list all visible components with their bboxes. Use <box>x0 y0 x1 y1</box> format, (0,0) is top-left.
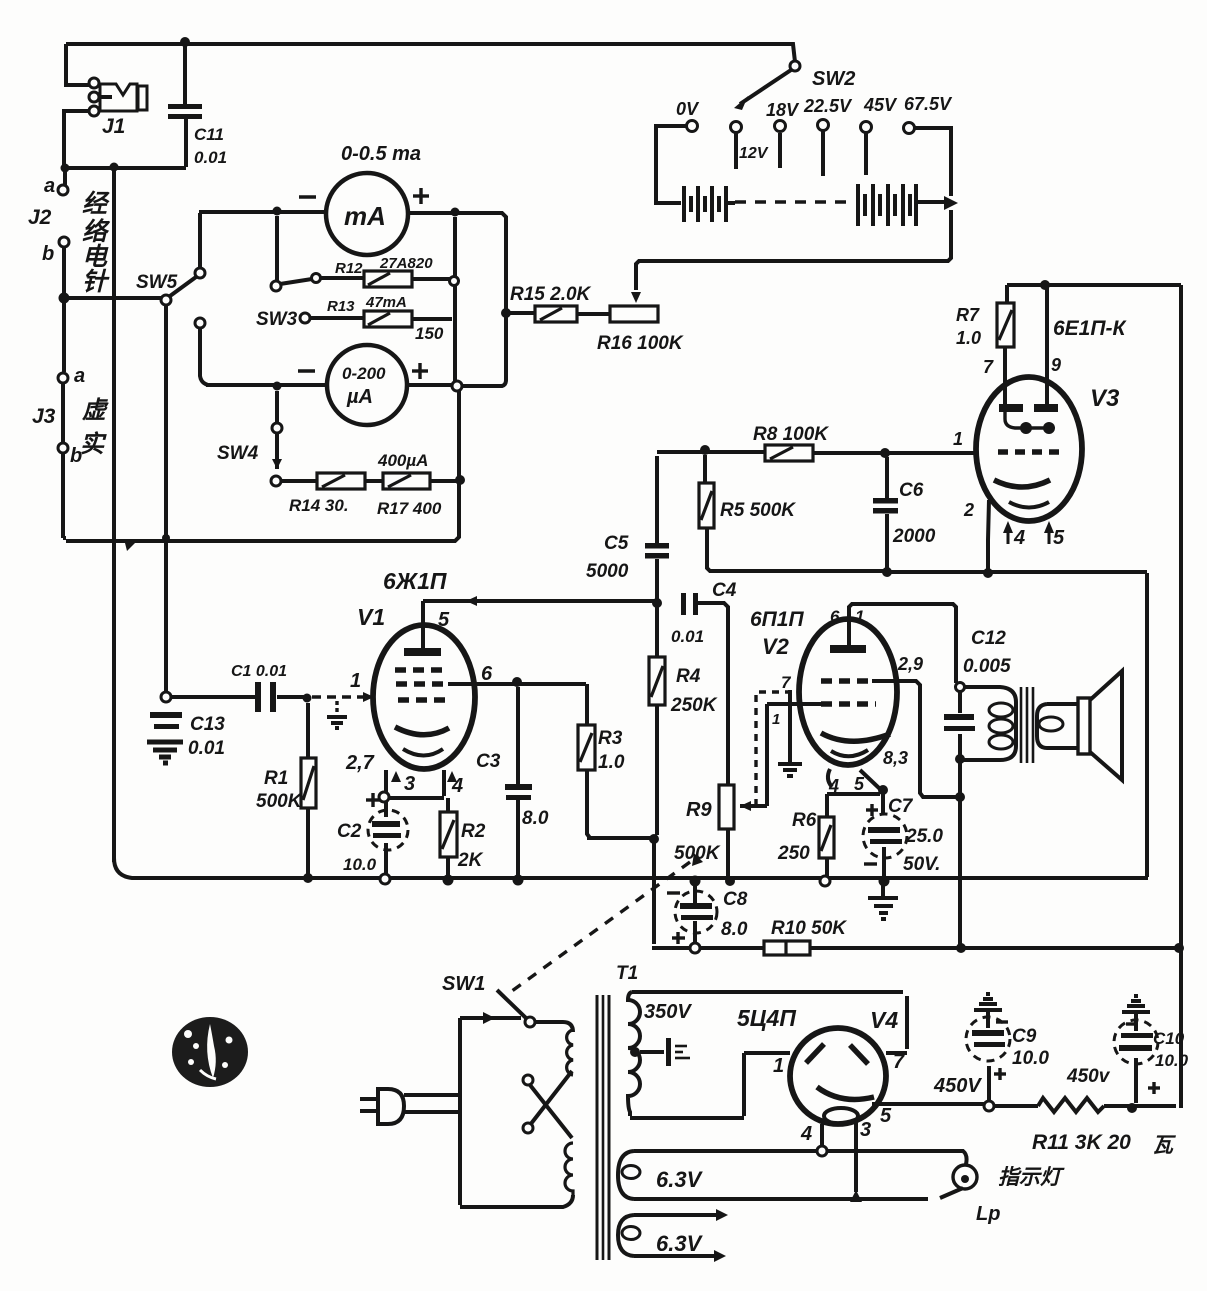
svg-text:J2: J2 <box>28 206 52 229</box>
svg-text:0.005: 0.005 <box>963 656 1011 677</box>
svg-text:C6: C6 <box>899 480 924 501</box>
svg-text:1: 1 <box>953 429 963 449</box>
svg-text:6Е1П-К: 6Е1П-К <box>1053 317 1127 340</box>
svg-text:0.01: 0.01 <box>194 148 227 167</box>
svg-text:R5 500K: R5 500K <box>720 500 796 521</box>
svg-text:R10 50K: R10 50K <box>771 918 847 939</box>
svg-text:R13: R13 <box>327 298 355 315</box>
svg-text:SW4: SW4 <box>217 443 259 464</box>
svg-text:R3: R3 <box>598 728 623 749</box>
svg-text:C9: C9 <box>1012 1026 1037 1047</box>
svg-text:V4: V4 <box>870 1007 898 1033</box>
svg-text:1.0: 1.0 <box>956 328 981 348</box>
svg-text:C12: C12 <box>971 628 1006 649</box>
svg-text:8,3: 8,3 <box>883 748 908 768</box>
svg-text:5: 5 <box>438 609 450 631</box>
svg-text:6.3V: 6.3V <box>656 1167 704 1192</box>
svg-text:3: 3 <box>404 773 415 795</box>
svg-text:µA: µA <box>346 386 373 408</box>
svg-text:R15 2.0K: R15 2.0K <box>510 284 592 305</box>
svg-text:4: 4 <box>828 776 839 796</box>
svg-text:2000: 2000 <box>892 526 936 547</box>
svg-text:虚: 虚 <box>82 397 109 424</box>
svg-text:6: 6 <box>830 607 840 626</box>
svg-text:实: 实 <box>80 431 107 458</box>
svg-text:J1: J1 <box>102 115 125 138</box>
svg-text:350V: 350V <box>644 1001 692 1023</box>
svg-text:SW1: SW1 <box>442 973 485 995</box>
svg-text:5: 5 <box>854 774 865 794</box>
svg-text:10.0: 10.0 <box>343 855 377 874</box>
svg-text:a: a <box>74 365 85 387</box>
svg-text:6.3V: 6.3V <box>656 1231 704 1256</box>
svg-text:V1: V1 <box>357 604 385 630</box>
svg-text:R7: R7 <box>956 305 980 325</box>
svg-text:500K: 500K <box>674 843 721 864</box>
svg-text:3: 3 <box>860 1119 871 1141</box>
svg-text:C4: C4 <box>712 580 737 601</box>
svg-text:C3: C3 <box>476 751 501 772</box>
svg-text:7: 7 <box>893 1051 905 1073</box>
svg-text:C7: C7 <box>888 796 914 817</box>
svg-text:C2: C2 <box>337 821 362 842</box>
svg-text:1: 1 <box>350 670 361 692</box>
svg-text:0-200: 0-200 <box>342 364 386 383</box>
svg-text:5: 5 <box>880 1105 892 1127</box>
svg-text:500K: 500K <box>256 791 303 812</box>
svg-text:0-0.5 ma: 0-0.5 ma <box>341 143 421 165</box>
svg-text:经: 经 <box>82 190 110 218</box>
svg-text:1: 1 <box>772 711 780 728</box>
svg-text:10.0: 10.0 <box>1155 1051 1189 1070</box>
svg-text:0.01: 0.01 <box>671 627 704 646</box>
svg-text:V3: V3 <box>1090 385 1120 412</box>
svg-text:SW5: SW5 <box>136 272 178 293</box>
svg-text:SW2: SW2 <box>812 68 855 90</box>
svg-text:7: 7 <box>983 357 994 377</box>
svg-text:J3: J3 <box>32 405 56 428</box>
svg-text:1.0: 1.0 <box>598 752 625 773</box>
svg-text:8.0: 8.0 <box>522 808 549 829</box>
svg-text:C10: C10 <box>1153 1029 1185 1048</box>
svg-text:针: 针 <box>82 268 110 296</box>
svg-text:8.0: 8.0 <box>721 919 748 940</box>
svg-text:R9: R9 <box>686 799 712 821</box>
svg-text:mA: mA <box>344 201 386 231</box>
svg-text:R4: R4 <box>676 666 701 687</box>
svg-text:250K: 250K <box>670 695 718 716</box>
svg-text:4: 4 <box>451 775 463 797</box>
svg-text:27A820: 27A820 <box>379 255 433 272</box>
svg-text:5000: 5000 <box>586 561 629 582</box>
svg-text:22.5V: 22.5V <box>803 96 853 116</box>
svg-text:450V: 450V <box>933 1075 982 1097</box>
svg-text:150: 150 <box>415 324 444 343</box>
svg-text:R2: R2 <box>461 821 486 842</box>
svg-text:0V: 0V <box>676 99 700 119</box>
svg-text:2,9: 2,9 <box>897 654 923 674</box>
svg-text:10.0: 10.0 <box>1012 1048 1049 1069</box>
svg-text:R1: R1 <box>264 768 288 789</box>
svg-text:0.01: 0.01 <box>188 738 225 759</box>
svg-text:18V: 18V <box>766 100 800 120</box>
svg-text:T1: T1 <box>616 963 638 984</box>
svg-text:9: 9 <box>1051 355 1061 375</box>
svg-text:1: 1 <box>773 1055 784 1077</box>
svg-text:Lp: Lp <box>976 1203 1000 1225</box>
svg-text:C8: C8 <box>723 889 748 910</box>
svg-text:b: b <box>42 243 54 265</box>
svg-text:47mA: 47mA <box>365 294 407 311</box>
svg-text:电: 电 <box>82 243 109 271</box>
svg-text:R8 100K: R8 100K <box>753 424 829 445</box>
svg-text:400µA: 400µA <box>377 451 428 470</box>
svg-text:250: 250 <box>777 843 810 864</box>
svg-text:瓦: 瓦 <box>1152 1134 1176 1157</box>
svg-text:C13: C13 <box>190 714 225 735</box>
svg-text:C11: C11 <box>194 125 224 144</box>
svg-text:5: 5 <box>1053 527 1065 549</box>
svg-text:6: 6 <box>481 663 493 685</box>
svg-text:C1 0.01: C1 0.01 <box>231 663 287 680</box>
svg-text:67.5V: 67.5V <box>904 94 953 114</box>
svg-text:25.0: 25.0 <box>905 826 943 847</box>
svg-text:R11 3K 20: R11 3K 20 <box>1032 1131 1131 1154</box>
svg-text:R16 100K: R16 100K <box>597 333 684 354</box>
svg-text:V2: V2 <box>762 634 790 659</box>
svg-text:2,7: 2,7 <box>345 752 375 774</box>
svg-text:指示灯: 指示灯 <box>998 1165 1065 1189</box>
svg-text:SW3: SW3 <box>256 309 298 330</box>
svg-text:6П1П: 6П1П <box>750 608 804 631</box>
svg-text:R12: R12 <box>335 260 363 277</box>
svg-text:50V.: 50V. <box>903 854 940 875</box>
svg-text:C5: C5 <box>604 533 629 554</box>
svg-text:6Ж1П: 6Ж1П <box>383 568 447 594</box>
svg-text:2: 2 <box>963 500 974 520</box>
svg-text:4: 4 <box>800 1123 812 1145</box>
svg-text:R6: R6 <box>792 810 817 831</box>
svg-text:2K: 2K <box>457 850 484 871</box>
svg-text:1: 1 <box>855 607 864 626</box>
svg-text:4: 4 <box>1013 527 1025 549</box>
svg-text:12V: 12V <box>739 145 769 162</box>
svg-text:450v: 450v <box>1066 1066 1111 1087</box>
svg-text:7: 7 <box>781 673 792 692</box>
svg-text:a: a <box>44 175 55 197</box>
svg-text:络: 络 <box>82 218 111 246</box>
svg-text:5Ц4П: 5Ц4П <box>737 1005 796 1031</box>
svg-text:R14 30.: R14 30. <box>289 496 349 515</box>
svg-text:45V: 45V <box>863 95 898 115</box>
svg-text:R17 400: R17 400 <box>377 499 442 518</box>
